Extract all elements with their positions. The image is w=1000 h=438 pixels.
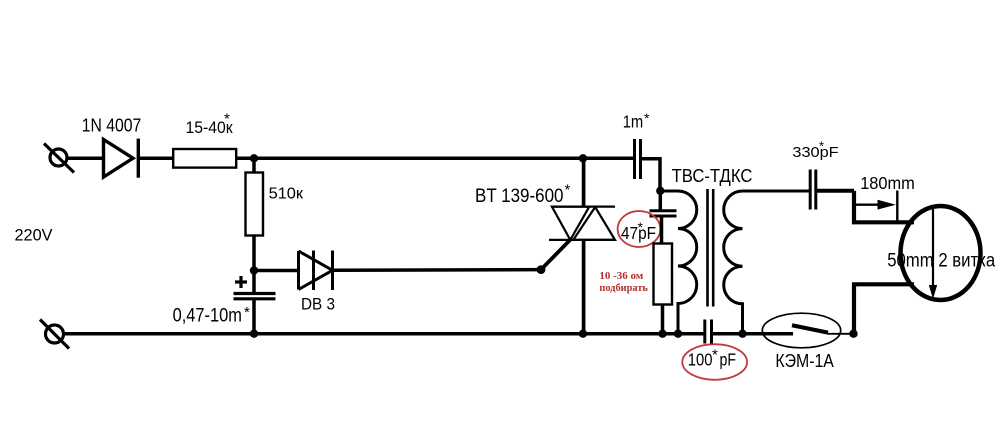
wire junction to C1 top plate <box>252 271 256 294</box>
wire gate diagonal <box>541 240 570 270</box>
wire R3 to rail <box>661 305 665 334</box>
node gate <box>537 265 546 274</box>
capacitor C5 100pF plates <box>705 320 712 344</box>
node secondary bottom <box>738 330 746 338</box>
capacitor C3 47pF plates <box>659 191 663 211</box>
resistor R2 510k <box>246 173 264 236</box>
svg-text:подбирать: подбирать <box>599 282 648 294</box>
wire diode to R1 <box>139 157 174 161</box>
wire loop bottom exit <box>854 284 914 333</box>
node top rail triac <box>579 154 587 162</box>
svg-text:BT 139-600: BT 139-600 <box>475 185 564 207</box>
node top of R2 <box>250 154 258 162</box>
wire terminal to diode <box>66 157 104 161</box>
wire R2 bottom lead <box>252 236 256 273</box>
svg-text:330pF: 330pF <box>792 144 838 161</box>
svg-text:pF: pF <box>720 349 737 369</box>
svg-text:ТВС-ТДКС: ТВС-ТДКС <box>672 166 753 186</box>
arrow 50mm diameter <box>932 207 934 288</box>
dimension line 180mm <box>896 191 898 223</box>
resistor R3 10-36 om <box>654 244 673 305</box>
svg-text:1N 4007: 1N 4007 <box>82 115 142 135</box>
red ellipse 47pF <box>618 211 661 247</box>
svg-text:DB 3: DB 3 <box>301 296 335 314</box>
wire C4 to bend <box>816 189 854 193</box>
capacitor C4 330pF plates <box>810 170 816 210</box>
capacitor C2 1m plates <box>635 139 641 179</box>
reed switch blade <box>792 325 828 332</box>
svg-text:100: 100 <box>688 349 713 369</box>
wire junction to DB3 <box>254 269 300 273</box>
svg-text:50mm 2 витка: 50mm 2 витка <box>887 249 995 271</box>
wire after C2 <box>641 159 661 191</box>
arrow 180mm <box>855 203 880 205</box>
svg-text:1m: 1m <box>623 112 644 132</box>
node junction R2/C1/DB3 <box>250 266 258 274</box>
terminal bottom-left <box>40 320 69 349</box>
diode D1 1N4007 <box>104 139 139 178</box>
node primary bottom <box>674 330 682 338</box>
svg-text:180mm: 180mm <box>860 173 915 193</box>
diac DB3 <box>299 251 333 291</box>
transformer T1 primary winding <box>660 191 696 334</box>
loop antenna L1 <box>901 206 981 300</box>
transformer T1 secondary winding <box>724 191 809 334</box>
svg-text:10 -36 ом: 10 -36 ом <box>599 270 643 282</box>
node loop to rail <box>849 330 857 338</box>
red ellipse 100pF <box>682 344 747 380</box>
transformer core <box>708 189 714 307</box>
wire triac vertical top <box>582 158 586 206</box>
node R3 bottom <box>658 330 666 338</box>
wire C1 to bottom rail <box>252 299 256 334</box>
capacitor C1 plates <box>234 294 276 299</box>
svg-text:КЭМ-1А: КЭМ-1А <box>775 351 834 371</box>
wire top rail <box>236 157 634 161</box>
svg-text:*: * <box>638 219 644 235</box>
node transformer top <box>656 187 664 195</box>
svg-text:*: * <box>244 304 250 321</box>
wire bend down to loop <box>854 191 914 223</box>
terminal top-left <box>44 144 74 173</box>
svg-text:220V: 220V <box>15 226 54 245</box>
wire reed to node <box>828 333 854 335</box>
wire triac vertical bottom <box>582 240 586 334</box>
wire rail between 100pF and reed <box>712 332 794 336</box>
wire C3 to R3 <box>660 216 664 244</box>
wire DB3 to gate node <box>333 268 542 272</box>
wire bottom rail left <box>63 332 705 336</box>
svg-text:0,47-10m: 0,47-10m <box>173 305 242 326</box>
reed switch S1 КЭМ-1А ellipse <box>762 313 840 348</box>
svg-text:*: * <box>644 110 650 126</box>
svg-text:510к: 510к <box>269 185 305 202</box>
node C1 bottom rail <box>250 330 258 338</box>
svg-text:*: * <box>565 182 571 199</box>
resistor R1 15-40k <box>173 149 236 168</box>
capacitor C1 0,47-10m polarized plus sign <box>235 276 247 288</box>
svg-text:*: * <box>224 111 230 128</box>
triac U1 BT 139-600 <box>549 207 615 240</box>
svg-text:*: * <box>819 139 824 154</box>
wire R2 top lead <box>252 158 256 173</box>
svg-text:*: * <box>712 347 718 364</box>
node bottom rail triac <box>579 330 587 338</box>
